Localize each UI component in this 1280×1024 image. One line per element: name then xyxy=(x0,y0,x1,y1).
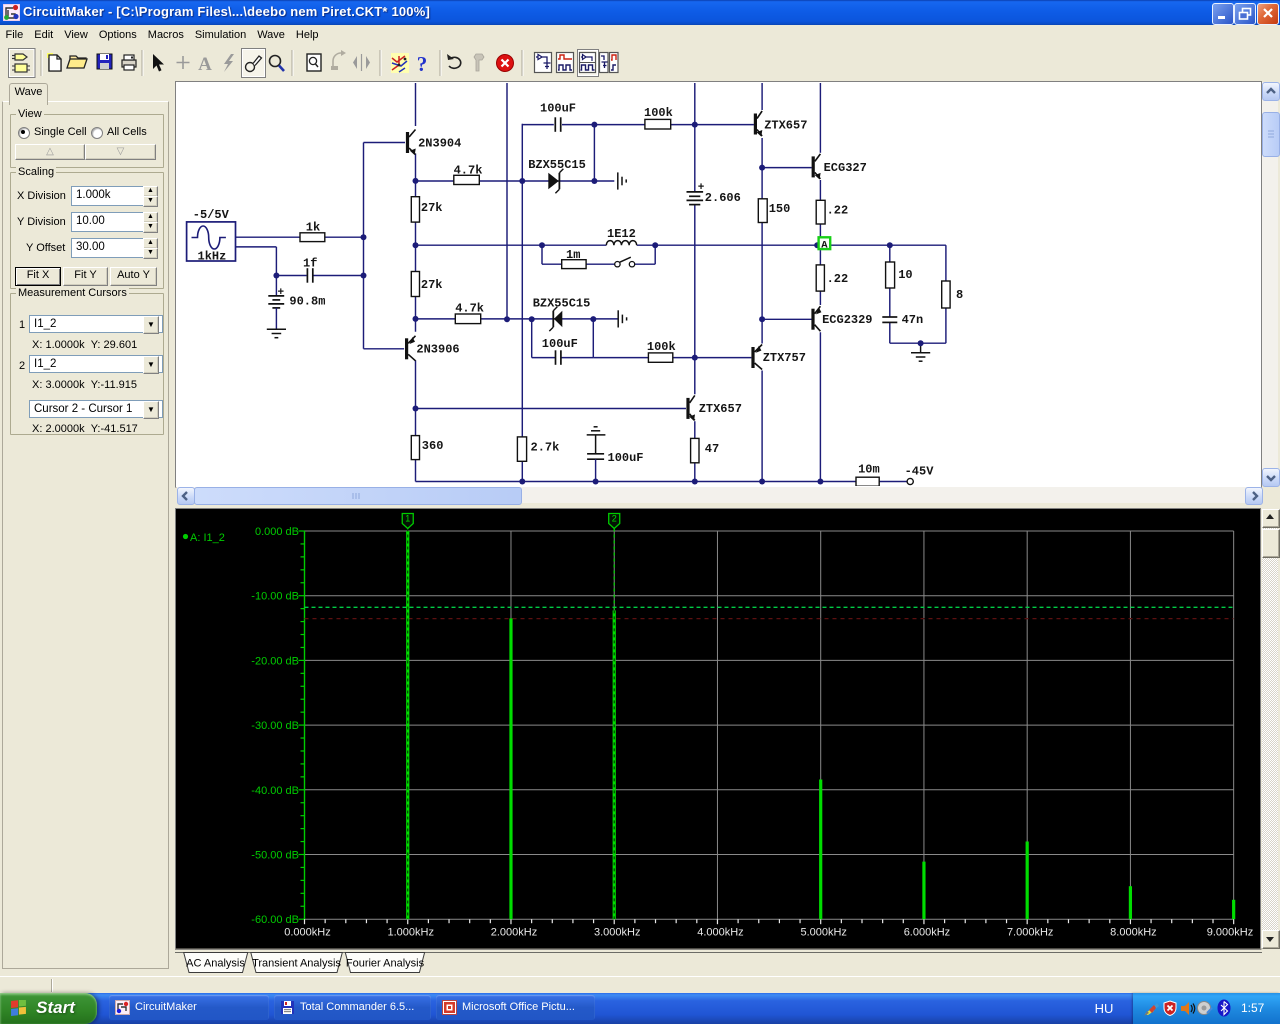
svg-text:-60.00 dB: -60.00 dB xyxy=(251,914,299,926)
svg-text:2N3904: 2N3904 xyxy=(418,136,461,150)
svg-text:AC Analysis: AC Analysis xyxy=(186,958,245,970)
svg-text:3.000kHz: 3.000kHz xyxy=(594,927,640,939)
svg-text:1f: 1f xyxy=(303,256,317,270)
svg-text:27k: 27k xyxy=(421,201,443,215)
svg-text:100uF: 100uF xyxy=(608,451,644,465)
svg-text:1E12: 1E12 xyxy=(607,227,636,241)
svg-text:1.000kHz: 1.000kHz xyxy=(387,927,433,939)
svg-text:0.000kHz: 0.000kHz xyxy=(284,927,330,939)
svg-text:9.000kHz: 9.000kHz xyxy=(1207,927,1253,939)
svg-text:8: 8 xyxy=(956,288,963,302)
svg-text:A: A xyxy=(821,239,828,251)
svg-text:-5/5V: -5/5V xyxy=(193,208,230,222)
svg-text:0.000 dB: 0.000 dB xyxy=(255,526,299,538)
svg-text:100uF: 100uF xyxy=(542,337,578,351)
svg-text:10: 10 xyxy=(898,268,912,282)
svg-text:1k: 1k xyxy=(306,221,320,235)
svg-text:ZTX657: ZTX657 xyxy=(699,402,742,416)
svg-text:ZTX657: ZTX657 xyxy=(764,118,807,132)
svg-text:-20.00 dB: -20.00 dB xyxy=(251,655,299,667)
svg-text:10m: 10m xyxy=(858,462,880,476)
svg-text:47n: 47n xyxy=(902,313,924,327)
svg-text:100k: 100k xyxy=(647,340,676,354)
svg-text:7.000kHz: 7.000kHz xyxy=(1007,927,1053,939)
svg-text:+: + xyxy=(698,182,705,194)
svg-text:2: 2 xyxy=(612,514,617,524)
svg-text:-45V: -45V xyxy=(905,465,935,479)
svg-text:1: 1 xyxy=(405,514,410,524)
svg-text:-10.00 dB: -10.00 dB xyxy=(251,591,299,603)
svg-text:A: A xyxy=(198,54,212,75)
svg-text:5.000kHz: 5.000kHz xyxy=(800,927,846,939)
svg-text:4.000kHz: 4.000kHz xyxy=(697,927,743,939)
svg-text:100uF: 100uF xyxy=(540,102,576,116)
svg-text:4.7k: 4.7k xyxy=(454,164,483,178)
svg-text:+: + xyxy=(278,287,285,299)
svg-text:27k: 27k xyxy=(421,278,443,292)
svg-text:1kHz: 1kHz xyxy=(198,249,227,263)
svg-text:?: ? xyxy=(417,52,428,76)
svg-text:-50.00 dB: -50.00 dB xyxy=(251,850,299,862)
svg-text:BZX55C15: BZX55C15 xyxy=(533,297,591,311)
svg-text:6.000kHz: 6.000kHz xyxy=(904,927,950,939)
svg-text:100k: 100k xyxy=(644,106,673,120)
svg-text:ECG327: ECG327 xyxy=(824,161,867,175)
svg-text:8.000kHz: 8.000kHz xyxy=(1110,927,1156,939)
svg-text:.22: .22 xyxy=(827,204,849,218)
svg-text:90.8m: 90.8m xyxy=(289,295,325,309)
svg-text:Fourier Analysis: Fourier Analysis xyxy=(346,958,425,970)
svg-text:.22: .22 xyxy=(827,272,849,286)
svg-text:2.000kHz: 2.000kHz xyxy=(491,927,537,939)
svg-text:2.606: 2.606 xyxy=(705,191,741,205)
svg-text:-40.00 dB: -40.00 dB xyxy=(251,785,299,797)
svg-text:A: I1_2: A: I1_2 xyxy=(190,532,225,544)
svg-text:BZX55C15: BZX55C15 xyxy=(528,158,586,172)
svg-text:150: 150 xyxy=(769,202,791,216)
svg-text:Transient Analysis: Transient Analysis xyxy=(252,958,341,970)
svg-text:-30.00 dB: -30.00 dB xyxy=(251,720,299,732)
svg-text:47: 47 xyxy=(705,442,719,456)
svg-text:ZTX757: ZTX757 xyxy=(763,351,806,365)
svg-text:360: 360 xyxy=(422,439,444,453)
svg-text:2N3906: 2N3906 xyxy=(416,343,459,357)
svg-text:ECG2329: ECG2329 xyxy=(822,313,872,327)
svg-text:2.7k: 2.7k xyxy=(531,441,560,455)
svg-text:4.7k: 4.7k xyxy=(455,302,484,316)
